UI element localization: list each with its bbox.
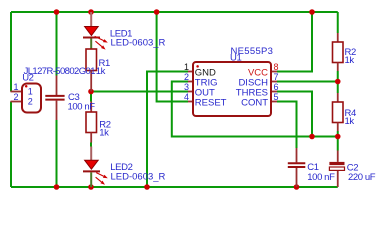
svg-text:1: 1 — [184, 62, 189, 72]
svg-text:2: 2 — [14, 92, 19, 102]
svg-text:1k: 1k — [99, 127, 109, 138]
svg-text:CONT: CONT — [241, 97, 268, 108]
wire LED column mid segment — [90, 92, 92, 102]
capacitor C1 — [288, 148, 306, 187]
junction bottom rail at U1 GND wire — [144, 184, 150, 190]
junction DISCH at R2/R4 — [335, 79, 341, 85]
wire left rail lower (U2 pin2 to GND rail) — [10, 102, 12, 188]
resistor R4 — [333, 93, 344, 131]
op-amp U1 body (NE555 timer) — [188, 62, 277, 116]
wire U1 pin6 THRES down to net — [277, 92, 312, 137]
svg-text:1: 1 — [14, 82, 19, 92]
junction THRES net at R4/C2 — [335, 134, 341, 140]
wire top VCC rail — [11, 11, 338, 13]
wire U1 pin2 TRIG to THRES net — [172, 82, 338, 137]
svg-text:3: 3 — [184, 82, 189, 92]
svg-text:RESET: RESET — [195, 97, 227, 108]
svg-text:1k: 1k — [345, 116, 355, 127]
svg-text:2: 2 — [28, 97, 33, 107]
wire R2 right to R4 segment — [337, 71, 339, 93]
wire VCC rail to U1 pin4 RESET — [157, 12, 188, 102]
wire left rail upper (VCC to U2 pin1) — [10, 12, 12, 92]
svg-text:6: 6 — [274, 82, 279, 92]
svg-text:1k: 1k — [96, 66, 106, 77]
junction bottom rail at LED2 — [88, 184, 94, 190]
junction top rail at C3 — [54, 9, 60, 15]
wire C3 top (VCC rail down to C3) — [56, 12, 58, 76]
wire C2 top — [337, 137, 339, 151]
connector U2 — [11, 84, 42, 113]
svg-text:4: 4 — [184, 92, 189, 102]
wire R4 bottom to THRES net — [337, 131, 339, 137]
junction OUT node — [88, 89, 94, 95]
resistor R2 right — [333, 33, 344, 71]
svg-text:1k: 1k — [345, 55, 355, 66]
wire OUT node to pin 3 — [91, 91, 188, 93]
LED2 — [83, 147, 108, 188]
svg-text:7: 7 — [274, 72, 279, 82]
wire U1 pin5 CONT to C1 — [277, 102, 297, 149]
svg-text:100 nF: 100 nF — [68, 102, 96, 113]
junction bottom rail at C1 — [294, 184, 300, 190]
junction top rail at LED1 — [88, 9, 94, 15]
svg-text:U2: U2 — [22, 73, 33, 84]
wire U1 pin1 GND to bottom rail — [147, 72, 188, 188]
wire U1 pin8 VCC to top rail — [277, 12, 312, 72]
svg-text:100 nF: 100 nF — [307, 172, 335, 183]
wire bottom GND rail — [11, 186, 338, 188]
capacitor C3 — [45, 76, 64, 121]
svg-text:1: 1 — [28, 87, 33, 97]
svg-text:220 uF: 220 uF — [348, 172, 376, 183]
capacitor C2 polarized — [329, 151, 344, 188]
junction THRES net at pin6 drop — [309, 134, 315, 140]
svg-text:LED-0603_R: LED-0603_R — [111, 38, 166, 49]
svg-text:2: 2 — [184, 72, 189, 82]
junction top rail at RESET wire — [154, 9, 160, 15]
LED1 — [83, 12, 108, 50]
resistor R1 — [86, 49, 97, 92]
svg-text:5: 5 — [274, 92, 279, 102]
svg-text:U1: U1 — [230, 53, 241, 64]
svg-text:LED-0603_R: LED-0603_R — [111, 172, 166, 183]
wire U1 pin7 DISCH to R2/R4 node — [277, 81, 338, 83]
resistor R2 middle — [86, 102, 97, 143]
wire R2 right column from VCC rail — [337, 12, 339, 33]
junction top rail at U1 VCC wire — [309, 9, 315, 15]
junction bottom rail at C3 — [54, 184, 60, 190]
svg-text:JL127R-50802G01: JL127R-50802G01 — [24, 66, 96, 77]
wire C3 bottom (C3 to GND rail) — [56, 120, 58, 187]
wire R2 bottom to LED2 segment — [90, 143, 92, 147]
svg-text:8: 8 — [274, 62, 279, 72]
